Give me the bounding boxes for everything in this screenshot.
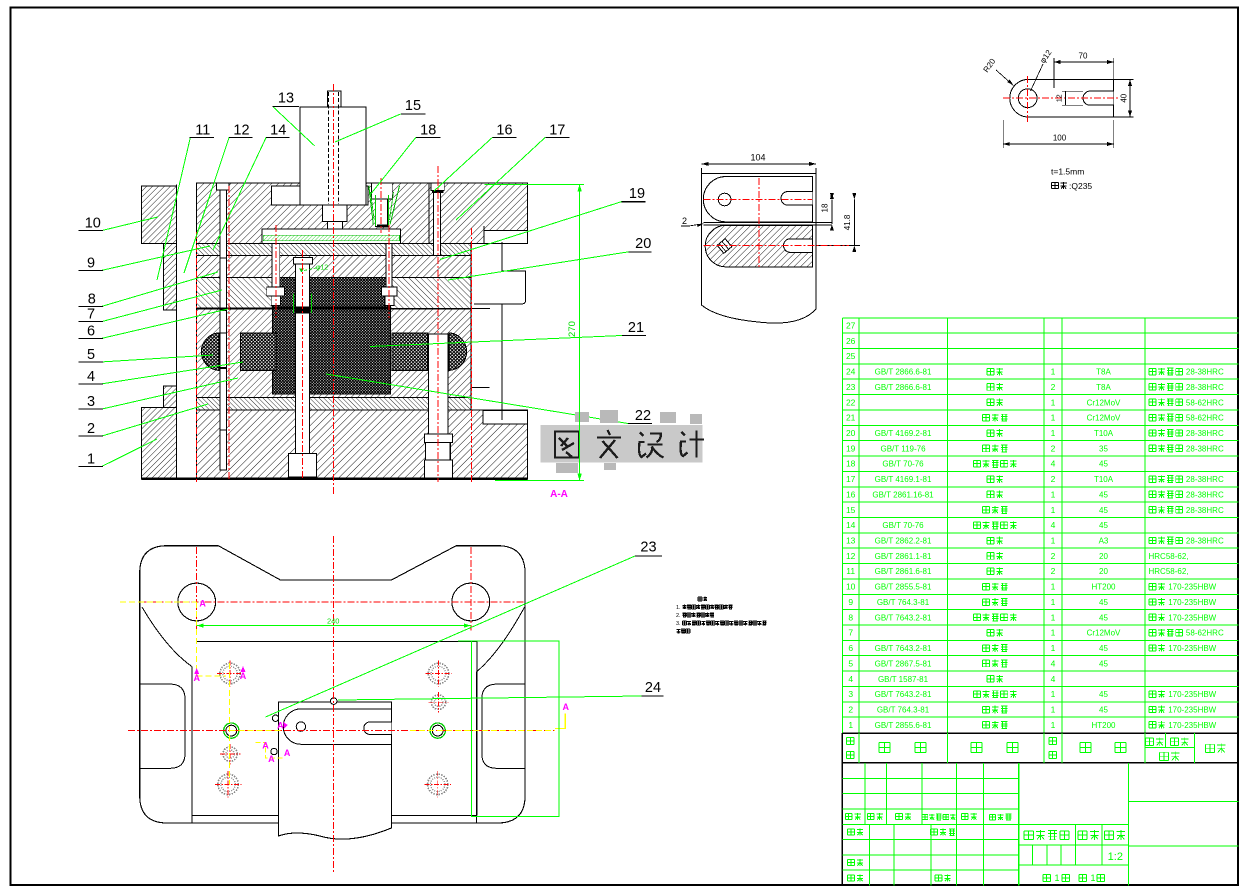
svg-text:28-38HRC: 28-38HRC <box>1186 506 1224 515</box>
svg-text:9: 9 <box>848 597 853 607</box>
dowel pin 19 white column <box>434 190 441 255</box>
balloon number 23 <box>635 555 662 557</box>
svg-text:HT200: HT200 <box>1091 721 1116 730</box>
die edge vertical left <box>191 667 193 823</box>
svg-text:19: 19 <box>846 443 856 453</box>
dimension 12 of slot <box>1062 90 1083 92</box>
lower die plan view outer plate outline <box>140 546 525 823</box>
stippled screw hole bottom left <box>218 774 238 794</box>
leader line for balloon 14 <box>213 137 266 250</box>
balloon number 4 <box>79 383 104 385</box>
top plate insert boundary line <box>428 183 430 243</box>
leader line for balloon 3 <box>102 378 238 409</box>
svg-text:14: 14 <box>846 520 856 530</box>
balloon number 7 <box>79 321 104 323</box>
balloon number 20 <box>629 251 652 253</box>
svg-text:58-62HRC: 58-62HRC <box>1186 414 1224 423</box>
stippled screw hole bottom right <box>428 774 448 794</box>
red centerline dowel pin 19 / screw 22 <box>437 166 439 482</box>
svg-text:Cr12MoV: Cr12MoV <box>1087 629 1121 638</box>
svg-text:4: 4 <box>1051 658 1056 668</box>
corner relief S-curve top left <box>142 607 192 667</box>
svg-text:170-235HBW: 170-235HBW <box>1168 706 1216 715</box>
lower die shoe bottom plate <box>197 410 528 479</box>
side view body outline with wavy break bottom <box>702 174 817 323</box>
svg-text:1: 1 <box>1051 413 1056 423</box>
svg-text:45: 45 <box>1099 521 1108 530</box>
svg-text:58-62HRC: 58-62HRC <box>1186 629 1224 638</box>
svg-text:26: 26 <box>846 336 856 346</box>
svg-text:24: 24 <box>645 680 661 696</box>
svg-text:1: 1 <box>1051 612 1056 622</box>
svg-text:21: 21 <box>846 413 856 423</box>
plan view red horizontal centerline through slot <box>128 730 557 732</box>
watermark character JI (count) <box>680 431 704 458</box>
header captions <box>847 738 855 745</box>
svg-text:21: 21 <box>628 320 644 336</box>
dimension 41.8 at right of side view <box>853 200 855 246</box>
svg-text:1: 1 <box>1051 582 1056 592</box>
svg-text:45: 45 <box>1099 659 1108 668</box>
svg-text:2: 2 <box>87 421 95 437</box>
tilted square pin section in lower plate <box>717 239 732 254</box>
bottom plate right corner notch <box>483 411 528 425</box>
svg-text:6: 6 <box>87 323 95 339</box>
stage mark box lines <box>1019 823 1129 825</box>
shank top stem <box>327 91 341 107</box>
svg-text:270: 270 <box>567 321 578 337</box>
balloon number 15 <box>401 113 426 115</box>
svg-text:28-38HRC: 28-38HRC <box>1186 383 1224 392</box>
tongue plate hole <box>296 722 305 731</box>
leader line for balloon 7 <box>102 290 222 322</box>
svg-text:2: 2 <box>848 705 853 715</box>
header vertical green lines <box>858 733 860 763</box>
left guide post hole circle <box>178 583 216 621</box>
svg-text:GB/T 764.3-81: GB/T 764.3-81 <box>877 598 930 607</box>
BOM table horizontal row lines <box>842 332 1238 334</box>
svg-text:GB/T 2855.5-81: GB/T 2855.5-81 <box>875 583 932 592</box>
svg-text:GB/T 2862.2-81: GB/T 2862.2-81 <box>875 537 932 546</box>
svg-text:GB/T 7643.2-81: GB/T 7643.2-81 <box>875 690 932 699</box>
balloon number 9 <box>79 269 104 271</box>
svg-text:3: 3 <box>87 394 95 410</box>
leader line for balloon 17 <box>456 137 545 220</box>
slotted plate outline inside tongue <box>283 709 391 744</box>
svg-text:A: A <box>199 599 206 609</box>
signature area labels <box>848 829 855 835</box>
knockout pin bottom widened hole <box>289 454 317 477</box>
svg-text:7: 7 <box>87 307 95 323</box>
press shank cylinder <box>300 107 366 205</box>
svg-text:170-235HBW: 170-235HBW <box>1168 644 1216 653</box>
svg-text:φ12: φ12 <box>316 265 328 272</box>
title block outer black lines <box>841 733 843 885</box>
svg-text:1:2: 1:2 <box>1108 851 1123 863</box>
svg-text:45: 45 <box>1099 598 1108 607</box>
yellow dash line left of post hole <box>120 601 197 603</box>
svg-text:1: 1 <box>1051 428 1056 438</box>
dimension 70 <box>1053 58 1055 88</box>
svg-text:170-235HBW: 170-235HBW <box>1168 613 1216 622</box>
svg-text:17: 17 <box>846 474 856 484</box>
leader line for balloon 8 <box>102 272 218 306</box>
gray watermark fragments above <box>575 410 702 424</box>
svg-text:1: 1 <box>1051 536 1056 546</box>
svg-text:A: A <box>268 754 275 764</box>
balloon number 24 <box>641 695 663 697</box>
detail part outline with round left end <box>1010 79 1114 117</box>
svg-text:2: 2 <box>1051 551 1056 561</box>
svg-text:GB/T 764.3-81: GB/T 764.3-81 <box>877 706 930 715</box>
svg-text:GB/T 2855.6-81: GB/T 2855.6-81 <box>875 721 932 730</box>
die edge vertical right <box>475 672 477 823</box>
full height separator at 1018.7 <box>1018 763 1020 886</box>
svg-text:18: 18 <box>420 123 436 139</box>
top plate right corner notch <box>484 231 528 244</box>
svg-text:20: 20 <box>635 236 651 252</box>
balloon number 6 <box>79 337 104 339</box>
leader line for balloon 21 <box>370 336 622 347</box>
red vertical centerline right post hole <box>470 547 472 630</box>
svg-text:2: 2 <box>1051 382 1056 392</box>
corner relief S-curve top right <box>476 607 524 672</box>
leader line for balloon 2 <box>102 404 208 436</box>
side view upper slotted plate outline <box>703 177 812 222</box>
svg-text:6: 6 <box>848 643 853 653</box>
yellow dash horizontal on slot centerline <box>229 730 283 732</box>
side view lower plate slot <box>784 239 813 253</box>
svg-text:T8A: T8A <box>1096 368 1111 377</box>
unit-total weight sub cell lines <box>1145 747 1194 749</box>
section bottom edge thick line <box>142 478 528 480</box>
svg-text:20: 20 <box>1099 567 1108 576</box>
balloon number 1 <box>79 465 104 467</box>
green highlighted hole right <box>430 723 445 738</box>
svg-text:A3: A3 <box>1099 537 1109 546</box>
svg-text:A: A <box>193 673 200 683</box>
svg-text:13: 13 <box>278 91 294 107</box>
svg-text:1: 1 <box>1051 397 1056 407</box>
red centerline pin 14 <box>275 225 277 318</box>
screw 18 counterbore and shaft <box>372 183 393 199</box>
red centerline right stripper screw <box>388 225 390 318</box>
svg-text:20: 20 <box>846 428 856 438</box>
svg-text::Q235: :Q235 <box>1069 181 1092 191</box>
green 270 dimension line over watermark <box>579 184 581 480</box>
ejector pin center-left white column 14 <box>272 241 280 287</box>
svg-text:8: 8 <box>848 612 853 622</box>
stripper bolt left lower part <box>220 333 227 470</box>
svg-text:240: 240 <box>327 617 340 626</box>
note line 4 <box>677 629 681 634</box>
pin right head and tip <box>382 287 397 296</box>
yellow section elbow right <box>555 713 565 728</box>
gray watermark fragments below <box>556 463 616 473</box>
svg-text:45: 45 <box>1099 506 1108 515</box>
red centerline screw 18 <box>380 178 382 233</box>
svg-text:27: 27 <box>846 321 856 331</box>
svg-text:28-38HRC: 28-38HRC <box>1186 475 1224 484</box>
svg-text:45: 45 <box>1099 460 1108 469</box>
svg-text:170-235HBW: 170-235HBW <box>1168 583 1216 592</box>
svg-text:4: 4 <box>1051 520 1056 530</box>
stripper plate band B4 <box>197 278 472 310</box>
right info box horizontal lines <box>1128 800 1238 802</box>
stripper bolt left white column <box>220 190 227 333</box>
stripper bolt left head notch <box>217 183 230 190</box>
svg-text:45: 45 <box>1099 706 1108 715</box>
watermark character SHE (design) <box>639 433 664 458</box>
svg-text:100: 100 <box>1053 134 1067 143</box>
ejector pin center-right white column <box>386 241 392 287</box>
central screw head below shank <box>323 205 348 222</box>
central screw visible column below shank <box>327 222 342 230</box>
svg-text:5: 5 <box>848 658 853 668</box>
svg-text:2: 2 <box>682 216 687 226</box>
balloon number 21 <box>622 335 646 337</box>
detail part right slot <box>1083 91 1114 105</box>
svg-text:4: 4 <box>848 674 853 684</box>
right spring cross-hatched block <box>392 333 427 371</box>
right column separator 1128.4 <box>1127 763 1129 886</box>
svg-text:10: 10 <box>85 216 101 232</box>
balloon number 17 <box>545 136 569 138</box>
svg-text:45: 45 <box>1099 490 1108 499</box>
leader line for balloon 22 <box>326 374 628 424</box>
svg-text:25: 25 <box>846 351 856 361</box>
svg-text:GB/T 2861.1-81: GB/T 2861.1-81 <box>875 552 932 561</box>
balloon number 5 <box>79 361 104 363</box>
svg-text:1: 1 <box>87 451 95 467</box>
punch-die dense block (part 21) <box>273 278 391 395</box>
svg-text:4: 4 <box>1051 674 1056 684</box>
red centerline left stripper bolt <box>228 186 230 480</box>
side view red centerlines <box>704 199 812 201</box>
gap lines between plates <box>704 221 832 223</box>
svg-text:2: 2 <box>1051 443 1056 453</box>
svg-text:1: 1 <box>1051 489 1056 499</box>
svg-text:16: 16 <box>846 489 856 499</box>
leader line for balloon 13 <box>273 106 315 146</box>
svg-text:T10A: T10A <box>1094 429 1114 438</box>
svg-text:1: 1 <box>1051 705 1056 715</box>
svg-text:GB/T 1587-81: GB/T 1587-81 <box>878 675 929 684</box>
svg-text:1: 1 <box>1051 628 1056 638</box>
svg-text:2: 2 <box>1051 566 1056 576</box>
red centerline main vertical axis <box>332 84 334 496</box>
stripper insert bar green hatch lower half <box>263 235 399 240</box>
balloon number 22 <box>628 423 652 425</box>
svg-text:1: 1 <box>1051 505 1056 515</box>
svg-text:GB/T 2861.6-81: GB/T 2861.6-81 <box>875 567 932 576</box>
stippled hole mid right small <box>431 695 445 709</box>
svg-text:1: 1 <box>848 720 853 730</box>
svg-text:T10A: T10A <box>1094 475 1114 484</box>
svg-text:170-235HBW: 170-235HBW <box>1168 598 1216 607</box>
right guide bushing outline (unsectioned) <box>474 242 526 304</box>
svg-text:12: 12 <box>233 123 249 139</box>
balloon number 3 <box>79 408 104 410</box>
svg-text:19: 19 <box>629 186 645 202</box>
svg-text:1.: 1. <box>676 605 681 611</box>
parts list header black top and bottom lines <box>842 732 1238 734</box>
svg-text:7: 7 <box>848 628 853 638</box>
balloon number 14 <box>266 136 289 138</box>
revision table verticals (upper 4 rows) <box>864 763 866 824</box>
yellow dash vertical from post hole <box>196 602 198 676</box>
leader line for balloon 19 <box>440 202 621 260</box>
left guide bushing column lower <box>164 386 177 408</box>
svg-text:GB/T 2867.5-81: GB/T 2867.5-81 <box>875 659 932 668</box>
leader line for balloon 6 <box>102 309 228 338</box>
svg-text:70: 70 <box>1079 52 1088 61</box>
svg-text:22: 22 <box>635 408 651 424</box>
svg-text:t=1.5mm: t=1.5mm <box>1051 167 1084 177</box>
right guide post hole circle <box>452 583 490 621</box>
balloon number 12 <box>229 136 252 138</box>
inner die area outline <box>197 640 477 642</box>
leader line balloon 24 <box>338 696 641 700</box>
svg-text:A: A <box>284 748 291 758</box>
green selection rectangle right of plan view <box>472 641 560 817</box>
central knockout pin with head <box>294 257 313 264</box>
yellow zigzag section path <box>256 742 284 758</box>
screw 22 head <box>425 434 453 443</box>
balloon number 13 <box>273 105 299 107</box>
small pilot hole above tongue <box>330 698 337 705</box>
right spring rounded end cap <box>449 333 467 371</box>
svg-text:A: A <box>262 740 269 750</box>
svg-text:2: 2 <box>1051 474 1056 484</box>
svg-text:3: 3 <box>848 689 853 699</box>
green dimension 270 extension lines <box>485 183 584 185</box>
svg-text:170-235HBW: 170-235HBW <box>1168 721 1216 730</box>
green dimension 270 vertical line with arrows <box>579 184 581 480</box>
svg-text:28-38HRC: 28-38HRC <box>1186 429 1224 438</box>
left guide bushing column upper <box>164 244 177 311</box>
left edge notch <box>140 684 185 768</box>
svg-text:Cr12MoV: Cr12MoV <box>1087 398 1121 407</box>
svg-text:GB/T 119-76: GB/T 119-76 <box>880 444 926 453</box>
svg-text:A-A: A-A <box>550 489 568 500</box>
svg-text:5: 5 <box>87 347 95 363</box>
leader line for balloon 10 <box>102 217 158 231</box>
side view upper plate hole <box>718 193 731 206</box>
svg-text:HRC58-62,: HRC58-62, <box>1149 552 1189 561</box>
leader line for balloon 5 <box>102 355 213 362</box>
stripper insert bar white <box>262 229 400 243</box>
svg-text:Cr12MoV: Cr12MoV <box>1087 414 1121 423</box>
svg-text:23: 23 <box>846 382 856 392</box>
pin 19 black collar <box>432 190 443 193</box>
svg-text:14: 14 <box>270 123 286 139</box>
stage mark caption <box>1024 831 1033 840</box>
svg-text:28-38HRC: 28-38HRC <box>1186 537 1224 546</box>
left spring cross-hatched block <box>241 333 276 371</box>
svg-text:35: 35 <box>1099 444 1108 453</box>
svg-text:18: 18 <box>846 459 856 469</box>
sheet count line <box>1043 875 1051 882</box>
red centerline left guide post <box>196 232 198 482</box>
yellow dash vertical through left holes <box>228 663 230 784</box>
svg-text:15: 15 <box>846 505 856 515</box>
pin 14 head and tip <box>267 287 285 296</box>
side view lower hatched plate <box>705 225 813 267</box>
title block green grid horizontal <box>842 777 1018 779</box>
BOM table vertical column lines <box>858 318 860 733</box>
svg-text:HRC58-62,: HRC58-62, <box>1149 567 1189 576</box>
punch holder plate B3 <box>197 256 472 278</box>
svg-text:20: 20 <box>1099 552 1108 561</box>
bottom plate left flange <box>142 407 177 479</box>
section view: upper die shoe top plate body <box>197 183 528 243</box>
shank recess in top plate <box>271 186 368 205</box>
small dowel hole left upper <box>272 715 278 721</box>
svg-text:11: 11 <box>846 566 855 576</box>
svg-text:41.8: 41.8 <box>843 214 852 230</box>
svg-text:1: 1 <box>1051 720 1056 730</box>
svg-text:9: 9 <box>87 255 95 271</box>
lower backing plate B6 <box>197 397 472 409</box>
svg-text:GB/T 2861.16-81: GB/T 2861.16-81 <box>872 490 934 499</box>
svg-text:18: 18 <box>821 203 830 212</box>
balloon number 18 <box>416 136 441 138</box>
green dimension 240 between post centers <box>197 625 471 627</box>
svg-text:1: 1 <box>1051 367 1056 377</box>
svg-text:45: 45 <box>1099 613 1108 622</box>
green highlighted hole left <box>224 723 239 738</box>
svg-text:GB/T 70-76: GB/T 70-76 <box>882 460 924 469</box>
svg-text:4: 4 <box>1051 459 1056 469</box>
leader line for balloon 15 <box>335 114 401 142</box>
svg-text:10: 10 <box>846 582 856 592</box>
svg-text:GB/T 7643.2-81: GB/T 7643.2-81 <box>875 613 932 622</box>
screw 18 black tip band <box>377 225 389 228</box>
svg-text:1: 1 <box>1054 873 1059 883</box>
watermark character TU (picture) <box>555 432 579 458</box>
screw 22 shaft white column <box>428 334 448 435</box>
material note Q235 <box>1052 182 1059 188</box>
leader line for balloon 4 <box>102 362 243 384</box>
svg-text:A: A <box>563 702 570 712</box>
leader line for balloon 18 <box>370 137 416 195</box>
svg-text:2.: 2. <box>676 613 681 619</box>
svg-text:170-235HBW: 170-235HBW <box>1168 690 1216 699</box>
leader line for balloon 12 <box>184 137 229 273</box>
gray watermark band <box>541 425 703 463</box>
hidden screw hole dashed lines inside shank <box>328 92 330 204</box>
watermark character WEN (text) <box>597 430 621 458</box>
svg-text:12: 12 <box>846 551 856 561</box>
leader line for balloon 20 <box>448 252 629 280</box>
svg-text:1: 1 <box>1051 643 1056 653</box>
side view upper plate slot <box>781 192 813 206</box>
svg-text:3.: 3. <box>676 621 681 627</box>
svg-text:GB/T 4169.2-81: GB/T 4169.2-81 <box>875 429 932 438</box>
svg-text:58-62HRC: 58-62HRC <box>1186 398 1224 407</box>
plan view red horizontal centerline through post holes <box>140 601 525 603</box>
svg-text:28-38HRC: 28-38HRC <box>1186 490 1224 499</box>
svg-text:12: 12 <box>1057 94 1064 102</box>
svg-text:1: 1 <box>1051 689 1056 699</box>
screw 18 green thread funnel <box>369 186 374 225</box>
dowel pin 19 head notch <box>431 183 444 190</box>
blanking strip thick line <box>273 307 391 310</box>
leader line for balloon 16 <box>434 137 493 191</box>
svg-text:GB/T 70-76: GB/T 70-76 <box>882 521 924 530</box>
svg-text:40: 40 <box>1120 93 1129 102</box>
